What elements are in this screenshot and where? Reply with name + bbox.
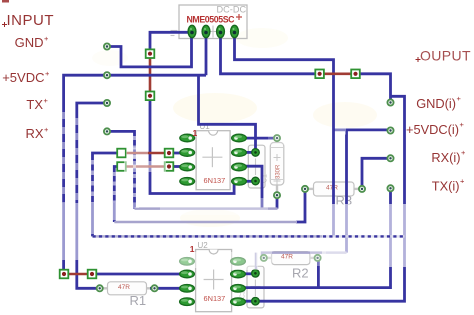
pad TX bbox=[104, 100, 110, 106]
pad R2 right bbox=[315, 255, 321, 261]
wire RX(i) to R3 right bbox=[362, 158, 391, 189]
wire U1 pin8 to 330R top bbox=[244, 137, 277, 140]
watermark dash overlays on left verticals bbox=[64, 112, 135, 203]
pad R1 right bbox=[151, 285, 157, 291]
svg-text:330R: 330R bbox=[276, 164, 282, 179]
wire via1 to DC-DC pad1 bbox=[150, 32, 192, 54]
pad U1-1 bbox=[180, 134, 195, 142]
wire via B to R3 left bbox=[114, 167, 121, 223]
via B bbox=[117, 162, 126, 171]
svg-text:47R: 47R bbox=[281, 254, 293, 261]
svg-text:NME0505SC: NME0505SC bbox=[187, 15, 236, 25]
svg-text:+: + bbox=[45, 69, 50, 78]
via 2 bbox=[146, 92, 155, 101]
pad C1 top bbox=[252, 149, 260, 157]
svg-text:R1: R1 bbox=[130, 293, 147, 308]
via D bbox=[165, 162, 174, 171]
svg-text:+: + bbox=[44, 34, 49, 43]
wire via F to U2 pin2 bbox=[92, 273, 186, 276]
wire U1 pin7 to C1 top bbox=[243, 151, 253, 154]
resistor R2 body bbox=[264, 252, 318, 281]
svg-text:+5VDC: +5VDC bbox=[2, 70, 44, 85]
wire U1 pin6 right and down bbox=[243, 166, 262, 208]
via C bbox=[165, 149, 174, 158]
input pads bbox=[104, 43, 110, 134]
op-amp U2 (6N137 optocoupler) outline bbox=[196, 241, 232, 312]
via 1 bbox=[146, 49, 155, 58]
resistor R3 body bbox=[305, 182, 362, 208]
svg-text:+: + bbox=[460, 120, 465, 129]
pad U2-7 bbox=[231, 270, 246, 278]
DC-DC converter U3 outline bbox=[179, 5, 247, 39]
pad U2-4 bbox=[180, 298, 195, 306]
wire R1 right to U2 pin3 bbox=[150, 287, 186, 290]
pad RX bbox=[104, 128, 110, 134]
wire DC-DC pad3 to GND(i) bbox=[221, 33, 320, 74]
resistor pads bbox=[97, 135, 366, 291]
wire TX input to R1 bbox=[77, 103, 107, 288]
wire lavender via B - R3 rail bbox=[114, 221, 297, 224]
pad 330R bottom bbox=[274, 192, 280, 198]
wire U2 pin7 to C2 top bbox=[243, 272, 253, 275]
svg-text:TX(i): TX(i) bbox=[432, 179, 460, 194]
pad U1-5 bbox=[232, 178, 247, 186]
capacitor C1 outline bbox=[248, 145, 268, 188]
pad U1-4 bbox=[180, 178, 195, 186]
wire red via E - via F bbox=[64, 273, 92, 276]
pad C2 bottom bbox=[252, 297, 260, 305]
pad R1 left bbox=[97, 285, 103, 291]
svg-text:+: + bbox=[44, 96, 49, 105]
pad U2-1 bbox=[180, 258, 195, 266]
pad R3 left bbox=[302, 186, 308, 192]
pad U2-6 bbox=[231, 285, 246, 293]
wire TX(i) down to U2 pin6 bbox=[243, 188, 391, 287]
via H bbox=[351, 70, 360, 79]
pad U1-7 bbox=[232, 149, 247, 157]
DC-DC origin marker bbox=[171, 31, 178, 36]
pad U3-4 bbox=[231, 25, 239, 37]
wire via D to U1 pin3 bbox=[169, 165, 182, 168]
resistor R1 body bbox=[100, 282, 155, 308]
pad TX(i) bbox=[387, 185, 393, 191]
capacitor C2 outline bbox=[240, 266, 265, 308]
output pads bbox=[387, 99, 393, 191]
wire DC-DC pad2 down bbox=[205, 33, 208, 75]
via G bbox=[315, 70, 324, 79]
wire dashed isolated-GND rail bbox=[93, 235, 405, 237]
pad R2 left bbox=[261, 255, 267, 261]
wire RX input down bbox=[107, 131, 135, 208]
svg-text:+: + bbox=[44, 125, 49, 134]
wire +5VDC branch to C1 bbox=[199, 75, 256, 152]
svg-text:1: 1 bbox=[193, 128, 198, 138]
wire U1 pin5 to C1 bottom bbox=[243, 180, 253, 183]
svg-text:+5VDC(i): +5VDC(i) bbox=[406, 122, 459, 137]
pad highlights bbox=[181, 135, 242, 301]
wire via H to GND(i) pad bbox=[356, 74, 391, 103]
corner red fragment bbox=[2, 0, 9, 3]
wire red via G - via H bbox=[320, 73, 356, 76]
svg-text:6N137: 6N137 bbox=[204, 176, 226, 185]
svg-text:+: + bbox=[461, 148, 466, 157]
wire 330R bottom stub bbox=[276, 195, 279, 208]
svg-text:+: + bbox=[457, 94, 462, 103]
svg-text:GND: GND bbox=[15, 35, 44, 50]
pad C1 bottom bbox=[252, 177, 260, 185]
wire lavender C2 top up bbox=[255, 253, 258, 272]
wire R3 left pad up-down bbox=[296, 192, 305, 222]
faint cream background patches bbox=[92, 28, 377, 227]
pad GND(i) bbox=[387, 99, 393, 105]
pad U2-8 bbox=[231, 258, 246, 266]
pad RX(i) bbox=[387, 155, 393, 161]
DC-DC pads bbox=[188, 25, 238, 37]
U2 pin pads bbox=[180, 258, 246, 306]
pad U1-6 bbox=[232, 163, 247, 171]
DC-DC center cross bbox=[207, 26, 219, 38]
wire lavender vcc to R2 left bbox=[262, 253, 347, 258]
pad U3-3 bbox=[217, 25, 225, 37]
wire red via A - via C bbox=[122, 152, 170, 155]
wire GND input to DC-DC pad1 bbox=[107, 33, 192, 67]
pad U1-3 bbox=[180, 163, 195, 171]
svg-text:U2: U2 bbox=[198, 241, 209, 250]
wire lavender underlay of dashed GND rail bbox=[93, 235, 405, 238]
via E bbox=[60, 270, 69, 279]
pad U1-2 bbox=[180, 149, 195, 157]
svg-text:+: + bbox=[460, 177, 465, 186]
resistor R4 (330R vertical) body bbox=[270, 138, 284, 195]
U1 pin pads bbox=[180, 134, 247, 185]
wire +5VDC(i) line bbox=[334, 128, 391, 131]
capacitor pads bbox=[252, 149, 260, 305]
svg-text:TX: TX bbox=[26, 97, 43, 112]
via F bbox=[88, 270, 97, 279]
pad U3-2 bbox=[202, 25, 210, 37]
wire GND(i) branch down right rail bbox=[243, 96, 405, 301]
pad C2 top bbox=[252, 270, 260, 278]
svg-text:INPUT: INPUT bbox=[7, 12, 55, 29]
svg-text:R2: R2 bbox=[292, 266, 309, 281]
wire red via1-via2 bbox=[149, 52, 152, 97]
pad +5VDC(i) bbox=[387, 127, 393, 133]
wire DC-DC pad4 down to isolated rail bbox=[235, 33, 334, 236]
pad GND bbox=[104, 43, 110, 49]
op-amp U1 (6N137 optocoupler) outline bbox=[196, 122, 230, 190]
svg-text:RX(i): RX(i) bbox=[431, 150, 460, 165]
wire via2 around U1 to pin5 bbox=[150, 96, 234, 194]
svg-text:RX: RX bbox=[25, 126, 43, 141]
pad U2-5 bbox=[231, 298, 246, 306]
wire via A left down bbox=[93, 153, 122, 236]
wire isolated vcc branch down bbox=[345, 130, 348, 253]
svg-text:47R: 47R bbox=[118, 284, 130, 291]
pad 330R top bbox=[274, 135, 280, 141]
pad U3-1 bbox=[188, 25, 196, 37]
svg-text:6N137: 6N137 bbox=[204, 294, 226, 303]
svg-text:1: 1 bbox=[190, 244, 195, 254]
pad U2-3 bbox=[180, 285, 195, 293]
svg-text:GND(i): GND(i) bbox=[416, 96, 456, 111]
via A bbox=[117, 149, 126, 158]
pad R3 right bbox=[359, 186, 365, 192]
pad +5VDC bbox=[104, 72, 110, 78]
wire R2 right pad down bbox=[317, 258, 320, 288]
pad U2-2 bbox=[180, 270, 195, 278]
svg-text:OUPUT: OUPUT bbox=[420, 48, 471, 64]
pad U1-8 bbox=[232, 134, 247, 142]
wire red via B - via D bbox=[122, 165, 170, 168]
wire lavender RX rail bbox=[135, 207, 278, 210]
wire +5VDC rail bbox=[64, 75, 206, 274]
svg-text:DC-DC: DC-DC bbox=[217, 5, 247, 15]
wire via C to U1 pin2 bbox=[169, 152, 182, 155]
